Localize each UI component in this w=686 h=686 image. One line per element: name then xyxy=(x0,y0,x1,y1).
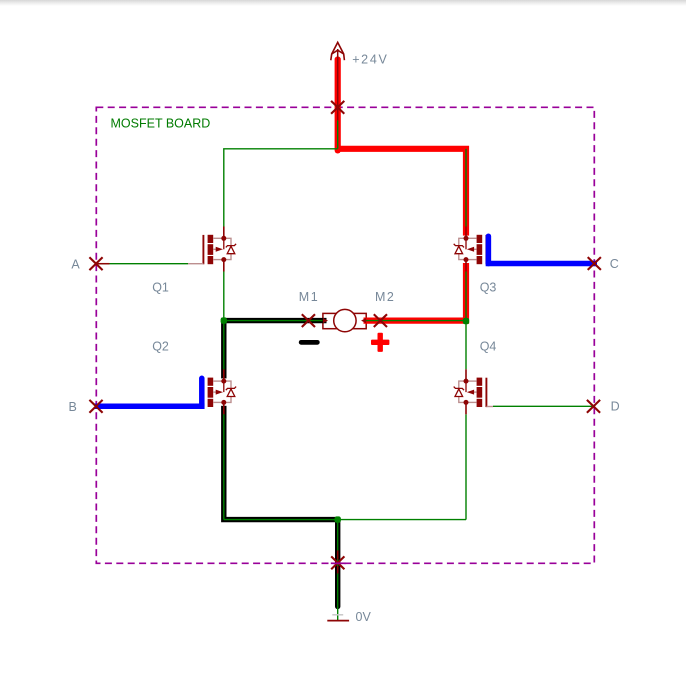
wire Q3 gate to C (blue highlight) xyxy=(486,261,597,267)
transistor Q4 xyxy=(453,369,487,414)
motor M body xyxy=(323,309,366,331)
node right (Q3 source / Q4 drain / M2) xyxy=(463,318,469,324)
wire motor M1 to Q2 drain to 0V rail (black highlight) xyxy=(224,321,338,520)
pin M2 xyxy=(374,314,387,327)
svg-text:Q3: Q3 xyxy=(480,281,497,295)
wire Q4 drain to node xyxy=(465,323,467,369)
wire bottom rail to Q4 source xyxy=(465,414,467,519)
wire Q1 source to node xyxy=(223,272,225,319)
wire Q4 gate to D xyxy=(493,405,594,407)
wire +24V drop center xyxy=(337,120,339,149)
pin A stub xyxy=(96,263,110,265)
node bottom (0V rail junction) xyxy=(335,516,341,522)
wire A to Q1 gate xyxy=(96,263,188,265)
pin M1 xyxy=(302,314,315,327)
svg-text:MOSFET BOARD: MOSFET BOARD xyxy=(111,116,211,130)
polarity plus mark xyxy=(371,333,389,352)
pin 0V xyxy=(331,556,344,569)
svg-text:Q4: Q4 xyxy=(480,339,497,353)
svg-text:M2: M2 xyxy=(375,290,395,304)
node left (Q1 source / Q2 drain / M1) xyxy=(221,317,227,323)
polarity minus mark xyxy=(299,340,320,345)
wire +24V rail to Q3 drain to motor M2 (red highlight) xyxy=(338,149,466,321)
ground symbol 0V xyxy=(332,614,343,616)
wire Q3 source to node xyxy=(465,272,467,319)
pin D xyxy=(587,400,600,413)
wire Q2 drain column center xyxy=(223,323,225,520)
motor pin M2 nub xyxy=(361,318,366,323)
wire rail to Q3 drain center xyxy=(465,149,467,227)
motor pin M1 nub xyxy=(323,318,328,323)
svg-text:B: B xyxy=(69,400,77,414)
pin B xyxy=(89,400,102,413)
pin +24V xyxy=(331,101,344,114)
wire +24V supply drop (red highlight) xyxy=(335,60,341,151)
power symbol +24V arrow xyxy=(331,42,345,120)
svg-text:Q1: Q1 xyxy=(152,281,169,295)
transistor Q2 xyxy=(203,369,237,414)
wire 0V drop (black highlight) xyxy=(335,520,340,607)
transistor Q3 xyxy=(453,227,487,272)
svg-text:M1: M1 xyxy=(299,290,319,304)
wire top rail to Q1 drain xyxy=(224,149,338,228)
wire node to motor M1 center xyxy=(224,320,323,322)
pin A xyxy=(89,257,102,270)
pin C xyxy=(588,257,601,270)
svg-text:A: A xyxy=(71,258,80,272)
wire bottom rail xyxy=(224,519,466,521)
pin 0V stub xyxy=(337,551,339,560)
wire motor M2 to node center xyxy=(364,320,467,322)
svg-text:+24V: +24V xyxy=(352,53,388,67)
wire 0V drop center xyxy=(337,520,339,621)
svg-text:C: C xyxy=(610,257,619,271)
wire B to Q2 gate (blue highlight) xyxy=(95,404,205,410)
transistor Q1 xyxy=(203,227,237,272)
svg-text:Q2: Q2 xyxy=(152,339,169,353)
svg-text:0V: 0V xyxy=(356,610,372,624)
svg-text:D: D xyxy=(611,400,620,414)
